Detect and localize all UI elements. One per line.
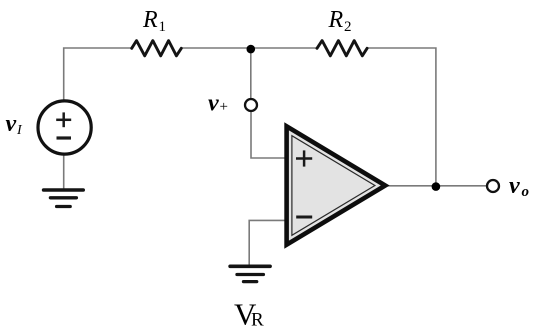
svg-text:R: R <box>251 309 264 330</box>
svg-text:+: + <box>220 99 228 115</box>
svg-text:o: o <box>522 184 530 200</box>
svg-text:v: v <box>208 90 219 116</box>
svg-text:2: 2 <box>344 19 352 35</box>
svg-text:1: 1 <box>159 19 167 35</box>
svg-text:v: v <box>6 111 17 137</box>
svg-text:R: R <box>142 7 158 33</box>
svg-text:R: R <box>328 7 344 33</box>
svg-text:v: v <box>509 173 520 199</box>
